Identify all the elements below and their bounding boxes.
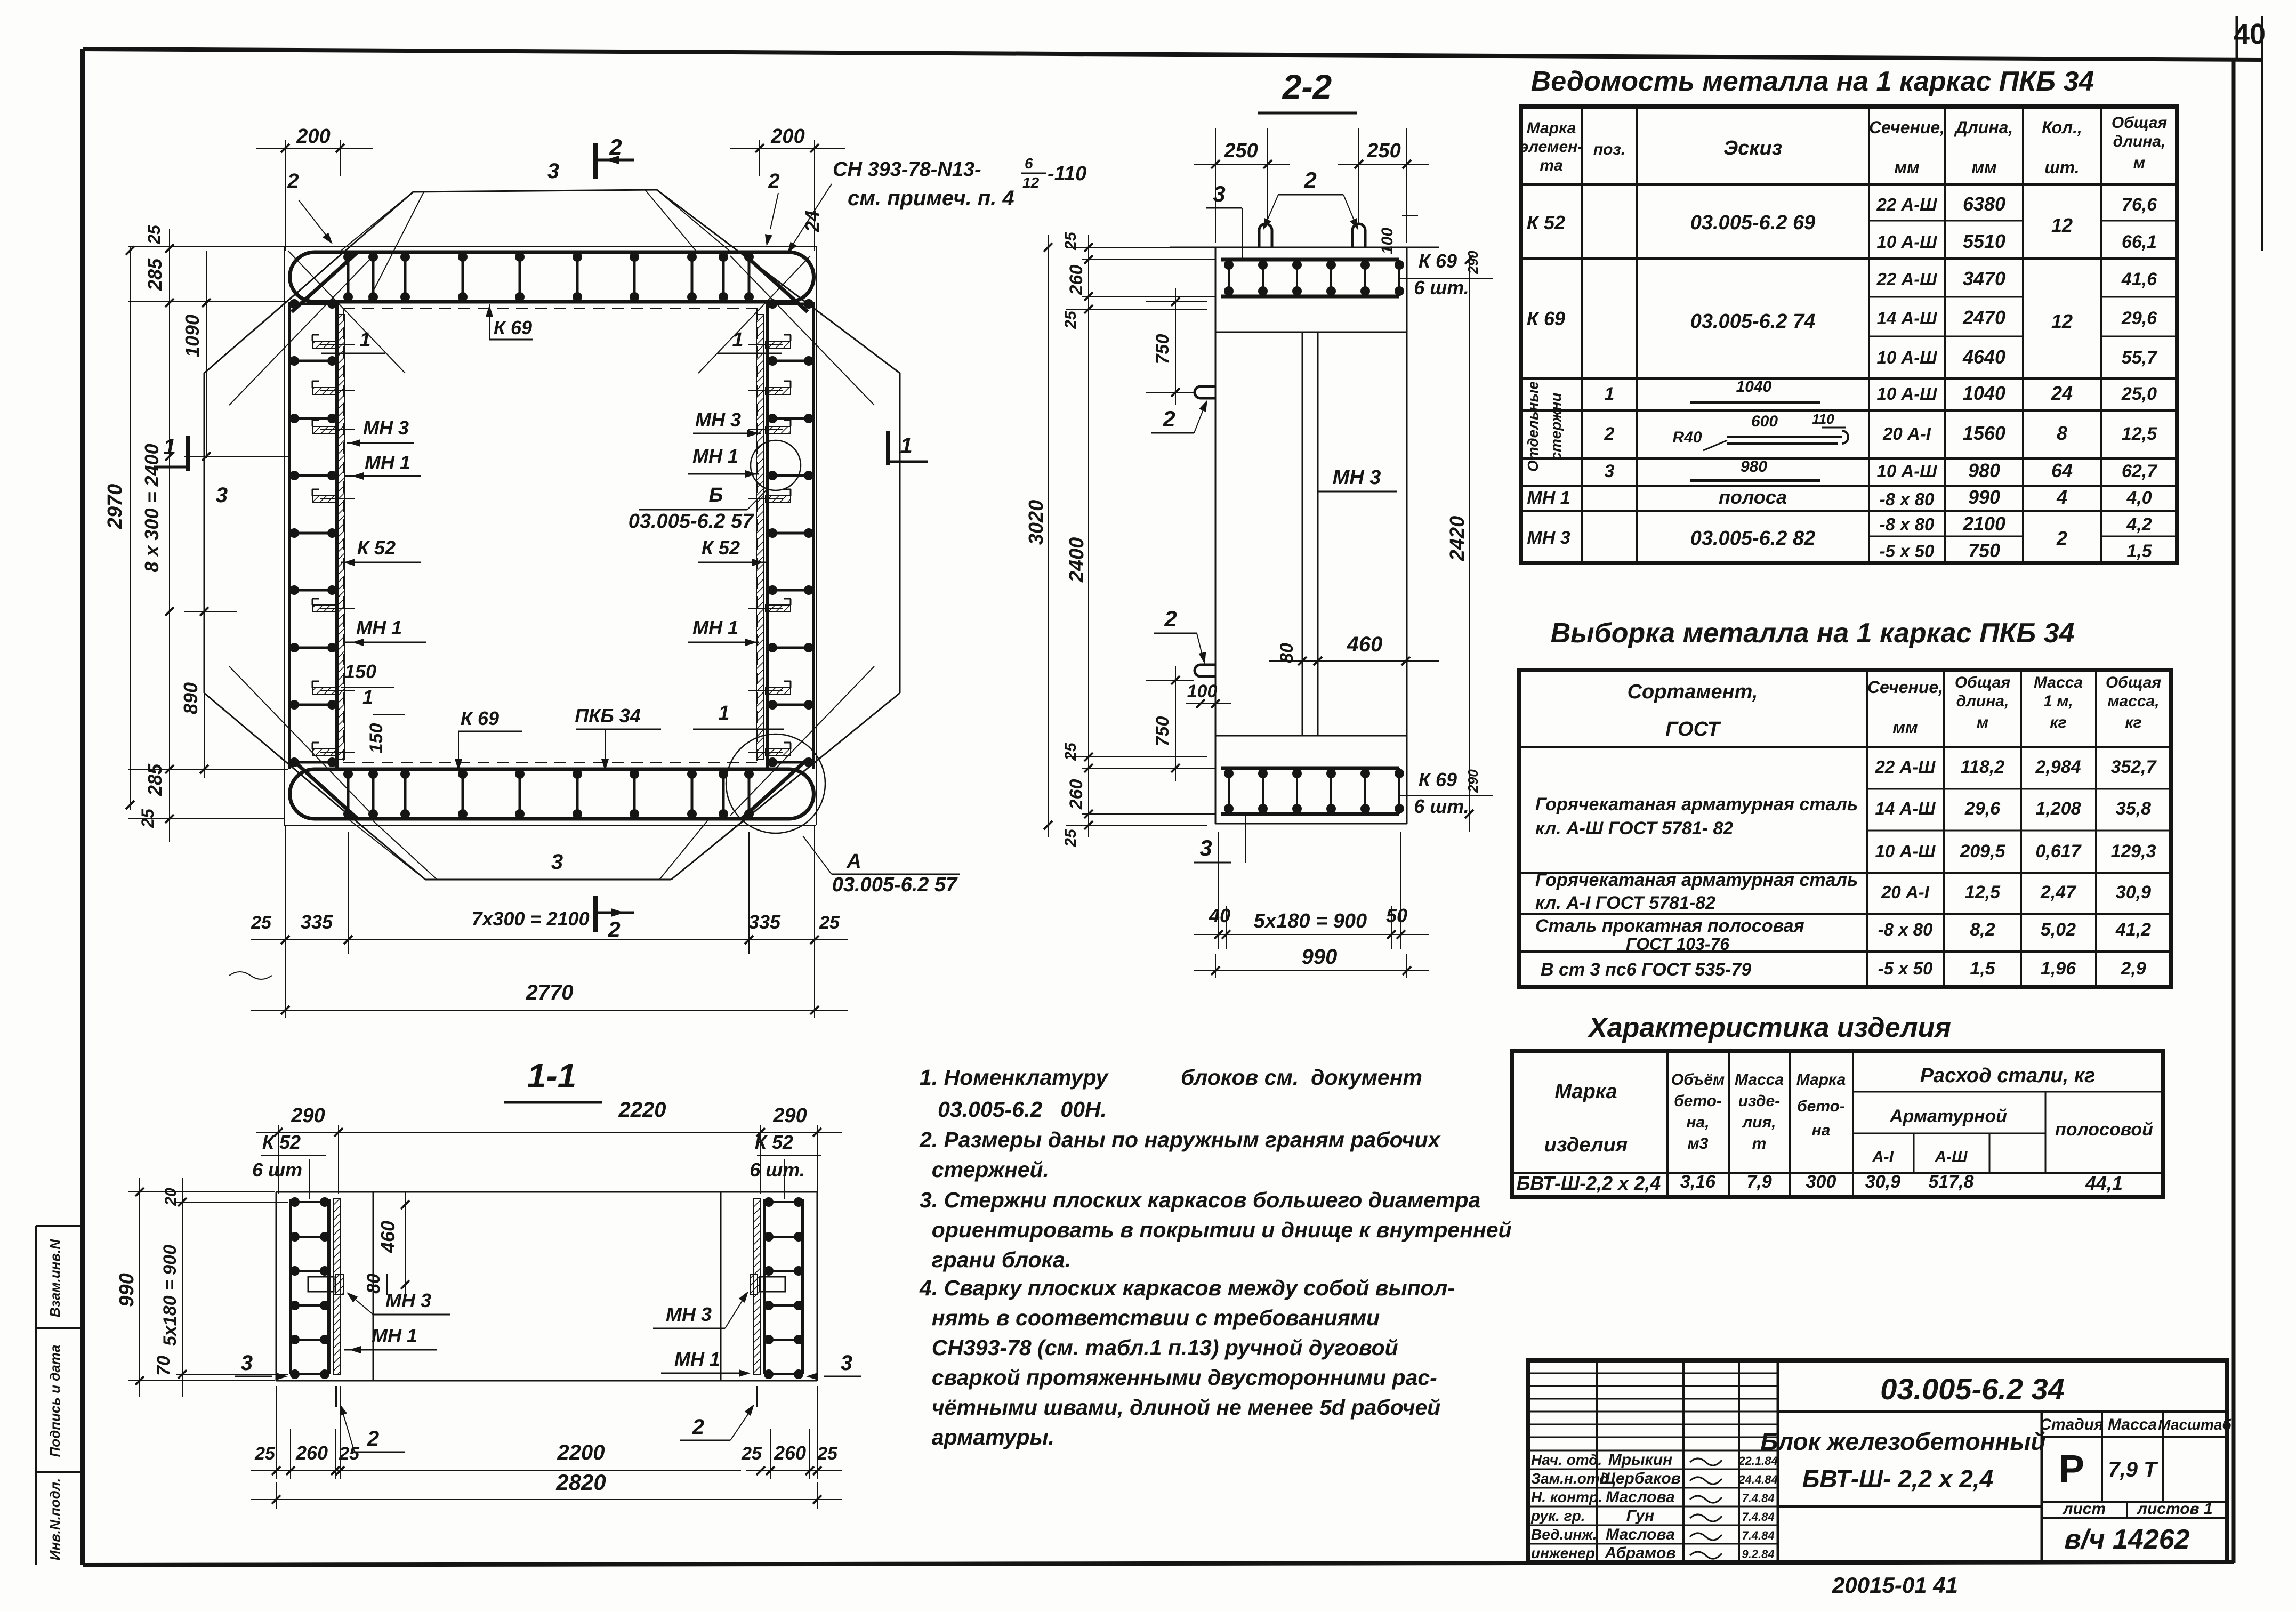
- svg-text:200: 200: [770, 125, 804, 148]
- svg-text:12: 12: [1022, 174, 1040, 191]
- svg-text:3: 3: [216, 483, 228, 507]
- svg-text:25: 25: [819, 913, 840, 933]
- svg-text:22 А-Ш: 22 А-Ш: [1876, 195, 1937, 214]
- svg-text:Стадия: Стадия: [2040, 1416, 2104, 1433]
- svg-text:кг: кг: [2125, 714, 2141, 731]
- drawing frame: [83, 49, 2262, 60]
- dim 460 80 MH3 labels left: [405, 1192, 406, 1295]
- table1 outer: [1521, 107, 2177, 563]
- svg-text:рук. гр.: рук. гр.: [1530, 1508, 1585, 1524]
- right MH3 plate stub: [760, 1277, 785, 1292]
- svg-text:МН 3: МН 3: [1333, 466, 1381, 489]
- svg-text:5,02: 5,02: [2041, 920, 2076, 940]
- svg-text:Зам.н.отд: Зам.н.отд: [1531, 1470, 1609, 1487]
- svg-text:СН 393-78-N13-: СН 393-78-N13-: [833, 158, 981, 181]
- svg-text:МН 3: МН 3: [363, 417, 409, 439]
- stadiya massa masshtab: [2041, 1412, 2043, 1562]
- svg-text:3470: 3470: [1963, 268, 2005, 289]
- svg-text:03.005-6.2 74: 03.005-6.2 74: [1690, 310, 1816, 333]
- svg-text:4. Сварку плоских каркасов меж: 4. Сварку плоских каркасов между собой в…: [919, 1276, 1455, 1300]
- svg-text:30,9: 30,9: [1865, 1172, 1900, 1192]
- svg-text:Характеристика изделия: Характеристика изделия: [1587, 1012, 1951, 1043]
- overall dims 3020 2400 2420: [1048, 235, 1049, 837]
- svg-text:4: 4: [2056, 486, 2067, 508]
- svg-text:10 А-Ш: 10 А-Ш: [1876, 348, 1937, 367]
- svg-text:2: 2: [367, 1427, 379, 1450]
- section flag 1 right: [886, 431, 890, 465]
- svg-text:МН 1: МН 1: [365, 452, 410, 473]
- bottom band rungs and bar dots: [347, 769, 350, 819]
- svg-text:1: 1: [900, 433, 912, 458]
- svg-text:Сталь прокатная полосовая: Сталь прокатная полосовая: [1535, 916, 1804, 936]
- svg-text:150: 150: [344, 660, 376, 682]
- svg-text:20: 20: [162, 1188, 180, 1206]
- svg-text:6 шт.: 6 шт.: [1414, 795, 1469, 817]
- dim 2820: [276, 1482, 277, 1509]
- svg-text:3: 3: [1199, 835, 1212, 860]
- concrete block thin outline: [203, 246, 816, 247]
- svg-text:Масса: Масса: [2034, 674, 2083, 691]
- svg-text:-8 x 80: -8 x 80: [1880, 514, 1935, 534]
- svg-text:260: 260: [1066, 265, 1086, 296]
- svg-text:14 А-Ш: 14 А-Ш: [1876, 308, 1937, 328]
- svg-text:352,7: 352,7: [2110, 757, 2157, 777]
- svg-text:25: 25: [254, 1444, 276, 1464]
- svg-text:1 м,: 1 м,: [2043, 692, 2073, 710]
- left dim column: 25 285 1090 8x300=2400 2970 890 285 25: [128, 246, 284, 247]
- svg-text:Щербаков: Щербаков: [1600, 1470, 1681, 1487]
- svg-text:Марка: Марка: [1527, 119, 1576, 137]
- svg-text:R40: R40: [1672, 429, 1702, 446]
- svg-text:260: 260: [774, 1442, 806, 1464]
- dim bottom row: 25 335 7x300=2100 335 25: [285, 825, 286, 954]
- member outline: [276, 1191, 817, 1193]
- svg-text:ГОСТ: ГОСТ: [1665, 718, 1721, 740]
- svg-text:ПКБ 34: ПКБ 34: [575, 705, 641, 727]
- svg-text:поз.: поз.: [1593, 141, 1625, 158]
- svg-text:Абрамов: Абрамов: [1604, 1544, 1675, 1562]
- svg-text:грани блока.: грани блока.: [920, 1247, 1071, 1272]
- svg-text:8,2: 8,2: [1970, 920, 1995, 940]
- svg-text:МН 1: МН 1: [692, 445, 738, 467]
- svg-text:Отдельные: Отдельные: [1525, 381, 1541, 472]
- svg-text:К 69: К 69: [494, 317, 532, 338]
- svg-text:10 А-Ш: 10 А-Ш: [1876, 461, 1937, 481]
- svg-text:МН 3: МН 3: [385, 1289, 431, 1311]
- svg-text:Арматурной: Арматурной: [1889, 1106, 2007, 1126]
- svg-text:изделия: изделия: [1544, 1134, 1628, 1156]
- svg-text:980: 980: [1968, 460, 2000, 481]
- svg-text:1,5: 1,5: [2126, 541, 2152, 561]
- svg-text:25: 25: [1062, 231, 1079, 251]
- svg-text:К 52: К 52: [1527, 212, 1565, 233]
- svg-text:2: 2: [1604, 424, 1615, 444]
- svg-text:03.005-6.2 57: 03.005-6.2 57: [832, 874, 958, 896]
- right band cage K52 chords: [766, 302, 769, 769]
- svg-text:Марка: Марка: [1796, 1071, 1846, 1089]
- svg-text:25: 25: [1062, 310, 1079, 329]
- svg-text:6 шт.: 6 шт.: [750, 1159, 805, 1181]
- left dims 990 5x180=900 20 70: [128, 1191, 275, 1192]
- svg-text:25: 25: [1062, 742, 1079, 761]
- svg-text:8: 8: [2057, 422, 2067, 444]
- svg-text:250: 250: [1223, 140, 1258, 162]
- svg-text:К 52: К 52: [262, 1131, 301, 1153]
- svg-text:24: 24: [2051, 382, 2073, 404]
- svg-text:Общая: Общая: [1955, 674, 2011, 691]
- svg-text:Общая: Общая: [2112, 114, 2168, 132]
- svg-text:80: 80: [1277, 643, 1297, 663]
- svg-text:Горячекатаная арматурная ста: Горячекатаная арматурная сталь: [1535, 794, 1858, 815]
- svg-text:листов 1: листов 1: [2136, 1500, 2212, 1518]
- svg-text:2: 2: [692, 1415, 704, 1439]
- svg-text:290: 290: [291, 1105, 325, 1127]
- svg-text:29,6: 29,6: [1964, 799, 2001, 819]
- svg-text:2220: 2220: [618, 1098, 666, 1122]
- svg-text:20015-01 41: 20015-01 41: [1832, 1573, 1958, 1598]
- svg-text:03.005-6.2 82: 03.005-6.2 82: [1690, 527, 1816, 550]
- svg-text:2: 2: [607, 917, 620, 942]
- svg-text:инженер: инженер: [1531, 1545, 1595, 1561]
- svg-text:6 шт.: 6 шт.: [1414, 277, 1469, 299]
- svg-text:9.2.84: 9.2.84: [1742, 1547, 1774, 1561]
- dim 2770: [251, 1010, 848, 1011]
- dim 200 top-right: [759, 140, 760, 176]
- svg-text:2: 2: [768, 170, 779, 192]
- svg-text:200: 200: [296, 125, 330, 148]
- svg-text:А: А: [846, 850, 861, 873]
- svg-text:2: 2: [609, 134, 622, 159]
- svg-text:990: 990: [1302, 945, 1338, 969]
- svg-text:03.005-6.2 34: 03.005-6.2 34: [1880, 1372, 2065, 1406]
- svg-text:1-1: 1-1: [527, 1057, 577, 1095]
- svg-text:25: 25: [1062, 828, 1079, 848]
- svg-text:64: 64: [2051, 460, 2073, 481]
- svg-text:10 А-Ш: 10 А-Ш: [1875, 841, 1936, 861]
- svg-text:2100: 2100: [1962, 513, 2005, 535]
- svg-text:кл. А-Ш ГОСТ 5781- 82: кл. А-Ш ГОСТ 5781- 82: [1535, 818, 1733, 839]
- svg-text:2400: 2400: [1066, 537, 1088, 583]
- svg-text:К 52: К 52: [755, 1131, 793, 1153]
- svg-text:20 А-I: 20 А-I: [1882, 424, 1931, 444]
- svg-text:285: 285: [144, 258, 166, 291]
- svg-text:5x180 = 900: 5x180 = 900: [160, 1245, 180, 1346]
- svg-text:3: 3: [1605, 461, 1615, 481]
- svg-text:5510: 5510: [1963, 230, 2005, 252]
- dim 750 upper: [1146, 301, 1207, 302]
- svg-text:2420: 2420: [1446, 516, 1469, 562]
- bottom cage K69 in section: [1221, 767, 1399, 770]
- svg-text:12: 12: [2051, 310, 2073, 332]
- left band cage K52 chords: [288, 302, 291, 769]
- svg-text:Масса: Масса: [1735, 1071, 1784, 1089]
- svg-text:Сечение,: Сечение,: [1867, 678, 1943, 697]
- svg-text:2: 2: [287, 170, 299, 192]
- svg-text:-8 x 80: -8 x 80: [1878, 920, 1933, 939]
- svg-text:12: 12: [2051, 214, 2073, 236]
- svg-text:МН 3: МН 3: [666, 1303, 712, 1325]
- svg-text:в/ч 14262: в/ч 14262: [2064, 1524, 2189, 1555]
- svg-text:517,8: 517,8: [1928, 1172, 1973, 1192]
- svg-text:БВТ-Ш-2,2 x 2,4: БВТ-Ш-2,2 x 2,4: [1517, 1172, 1661, 1194]
- svg-text:Марка: Марка: [1554, 1081, 1617, 1103]
- svg-text:3020: 3020: [1025, 500, 1048, 545]
- svg-text:25,0: 25,0: [2121, 384, 2157, 404]
- svg-text:3: 3: [841, 1351, 852, 1375]
- svg-text:890: 890: [180, 682, 202, 714]
- svg-text:260: 260: [295, 1442, 328, 1464]
- svg-text:3: 3: [551, 850, 563, 874]
- svg-text:К 69: К 69: [1419, 769, 1457, 791]
- svg-text:44,1: 44,1: [2085, 1172, 2123, 1194]
- svg-text:полоса: полоса: [1719, 486, 1787, 508]
- svg-text:та: та: [1540, 157, 1562, 174]
- svg-text:2. Размеры даны по наружным гр: 2. Размеры даны по наружным граням рабоч…: [919, 1127, 1441, 1152]
- svg-text:МН 1: МН 1: [692, 617, 738, 639]
- svg-text:24: 24: [801, 211, 823, 232]
- svg-text:30,9: 30,9: [2116, 882, 2151, 902]
- svg-text:Мрыкин: Мрыкин: [1608, 1451, 1673, 1469]
- svg-text:7.4.84: 7.4.84: [1742, 1510, 1774, 1524]
- svg-text:1: 1: [718, 702, 729, 724]
- svg-text:1040: 1040: [1736, 378, 1772, 396]
- svg-text:-5 x 50: -5 x 50: [1878, 958, 1933, 978]
- svg-text:м: м: [2133, 154, 2145, 172]
- svg-text:шт.: шт.: [2044, 158, 2079, 177]
- svg-text:Длина,: Длина,: [1954, 118, 2013, 137]
- dim 750 lower: [1146, 680, 1194, 681]
- svg-text:Эскиз: Эскиз: [1723, 137, 1782, 159]
- svg-text:мм: мм: [1894, 158, 1920, 177]
- svg-text:6 шт: 6 шт: [252, 1159, 302, 1181]
- svg-text:БВТ-Ш- 2,2 x 2,4: БВТ-Ш- 2,2 x 2,4: [1802, 1465, 1993, 1493]
- svg-text:Нач. отд.: Нач. отд.: [1531, 1452, 1602, 1468]
- dim 40 5x180=900 50: [1218, 832, 1219, 949]
- svg-text:масса,: масса,: [2107, 692, 2159, 710]
- svg-text:300: 300: [1806, 1172, 1836, 1192]
- MH3 bracket plates right: [766, 341, 791, 348]
- svg-text:на: на: [1812, 1122, 1831, 1139]
- section flag 2 bottom: [593, 896, 598, 932]
- svg-text:на,: на,: [1686, 1114, 1709, 1131]
- svg-text:ориентировать в покрытии и дни: ориентировать в покрытии и днище к внутр…: [920, 1218, 1512, 1242]
- right MH1 plate hatched: [753, 1199, 760, 1375]
- section outline: [1170, 247, 1439, 248]
- svg-text:кл. А-I ГОСТ 5781-82: кл. А-I ГОСТ 5781-82: [1535, 893, 1715, 913]
- svg-text:25: 25: [339, 1444, 360, 1464]
- lifting hooks on top: [1259, 224, 1272, 247]
- svg-text:460: 460: [377, 1221, 399, 1253]
- svg-text:Масштаб: Масштаб: [2158, 1416, 2231, 1433]
- svg-text:Общая: Общая: [2106, 674, 2162, 691]
- svg-text:25: 25: [144, 224, 164, 245]
- svg-text:260: 260: [1066, 779, 1086, 810]
- svg-text:22 А-Ш: 22 А-Ш: [1874, 757, 1936, 777]
- svg-text:03.005-6.2 57: 03.005-6.2 57: [629, 510, 754, 533]
- svg-text:стержней.: стержней.: [920, 1157, 1049, 1182]
- svg-text:длина,: длина,: [2113, 133, 2166, 150]
- svg-text:полосовой: полосовой: [2055, 1119, 2153, 1140]
- svg-text:7.4.84: 7.4.84: [1742, 1492, 1774, 1505]
- svg-text:2970: 2970: [104, 484, 126, 530]
- svg-text:-110: -110: [1048, 163, 1086, 185]
- svg-text:25: 25: [741, 1444, 762, 1464]
- svg-text:600: 600: [1751, 413, 1778, 430]
- svg-text:12,5: 12,5: [2122, 424, 2157, 444]
- svg-text:К 69: К 69: [1527, 308, 1565, 329]
- svg-text:2,984: 2,984: [2035, 757, 2081, 777]
- svg-text:изде-: изде-: [1738, 1092, 1780, 1110]
- svg-text:К 52: К 52: [702, 537, 740, 559]
- svg-text:2: 2: [1303, 167, 1316, 192]
- left MH3 plate stub: [308, 1277, 334, 1292]
- svg-text:1090: 1090: [181, 315, 203, 357]
- MH3 plate edge lines: [1302, 332, 1303, 736]
- svg-text:МН 1: МН 1: [356, 617, 402, 639]
- svg-text:арматуры.: арматуры.: [920, 1425, 1054, 1449]
- svg-text:1: 1: [1605, 384, 1615, 404]
- MH3 bracket plates left: [312, 341, 337, 348]
- svg-text:Гун: Гун: [1626, 1507, 1654, 1525]
- dim 250 250 top: [1215, 128, 1216, 243]
- svg-text:25: 25: [138, 808, 157, 828]
- svg-text:Сечение,: Сечение,: [1869, 118, 1945, 137]
- svg-text:335: 335: [748, 911, 781, 933]
- svg-text:длина,: длина,: [1956, 692, 2009, 710]
- svg-text:лия,: лия,: [1742, 1114, 1776, 1131]
- svg-text:1,5: 1,5: [1970, 958, 1995, 979]
- section flag 1 left: [186, 436, 190, 471]
- svg-text:Маслова: Маслова: [1606, 1526, 1675, 1543]
- svg-text:750: 750: [1153, 334, 1173, 365]
- svg-text:22.1.84: 22.1.84: [1738, 1454, 1777, 1468]
- svg-text:209,5: 209,5: [1959, 841, 2005, 861]
- svg-text:290: 290: [772, 1105, 807, 1127]
- svg-text:1,96: 1,96: [2041, 958, 2076, 979]
- left margin stamp column: [35, 1226, 37, 1565]
- svg-text:460: 460: [1347, 633, 1383, 656]
- svg-text:10 А-Ш: 10 А-Ш: [1876, 384, 1937, 404]
- svg-text:Блок железобетонный: Блок железобетонный: [1760, 1428, 2045, 1455]
- svg-text:990: 990: [1968, 486, 2000, 508]
- svg-text:Расход стали, кг: Расход стали, кг: [1920, 1065, 2096, 1087]
- svg-text:62,7: 62,7: [2122, 461, 2158, 481]
- right K52 cage in section: [763, 1199, 766, 1374]
- svg-text:1: 1: [732, 329, 743, 351]
- svg-text:335: 335: [301, 911, 333, 933]
- svg-text:0,617: 0,617: [2035, 841, 2082, 861]
- svg-text:66,1: 66,1: [2122, 232, 2157, 252]
- svg-text:29,6: 29,6: [2121, 308, 2157, 328]
- svg-text:6380: 6380: [1963, 193, 2005, 215]
- bottom dims 25 260 25 2200: [276, 1386, 277, 1479]
- svg-text:100: 100: [1379, 228, 1396, 254]
- svg-text:14 А-Ш: 14 А-Ш: [1875, 799, 1936, 818]
- svg-text:3,16: 3,16: [1680, 1172, 1716, 1192]
- page number 40: [2236, 16, 2238, 60]
- svg-text:3. Стержни плоских каркасов бо: 3. Стержни плоских каркасов большего диа…: [920, 1188, 1480, 1212]
- svg-text:40: 40: [1209, 905, 1230, 926]
- corner diagonal braces: [292, 252, 358, 312]
- svg-text:41,6: 41,6: [2121, 269, 2157, 289]
- svg-text:70: 70: [154, 1356, 174, 1376]
- side hooks bar 2: [1195, 386, 1215, 398]
- svg-text:40: 40: [2234, 18, 2266, 50]
- svg-text:2-2: 2-2: [1282, 68, 1332, 106]
- svg-text:22 А-Ш: 22 А-Ш: [1876, 269, 1937, 289]
- svg-text:6: 6: [1025, 155, 1033, 172]
- svg-text:2470: 2470: [1962, 307, 2005, 328]
- svg-text:03.005-6.2 00Н.: 03.005-6.2 00Н.: [920, 1097, 1107, 1122]
- svg-text:стержни: стержни: [1548, 392, 1564, 460]
- svg-text:-8 x 80: -8 x 80: [1880, 489, 1935, 509]
- svg-text:т: т: [1752, 1135, 1767, 1152]
- svg-text:Б: Б: [709, 484, 723, 506]
- svg-text:100: 100: [1187, 681, 1218, 702]
- svg-text:50: 50: [1386, 905, 1407, 926]
- svg-text:1. Номенклатуру бло: 1. Номенклатуру блоков см. документ: [920, 1065, 1422, 1090]
- svg-text:Подпись и дата: Подпись и дата: [47, 1345, 63, 1457]
- svg-text:Взам.инв.N: Взам.инв.N: [47, 1239, 63, 1317]
- svg-text:Выборка металла на 1 каркас: Выборка металла на 1 каркас ПКБ 34: [1551, 618, 2075, 649]
- svg-text:1: 1: [362, 686, 373, 708]
- svg-text:7x300 = 2100: 7x300 = 2100: [471, 908, 589, 930]
- svg-text:1,208: 1,208: [2035, 799, 2081, 819]
- svg-text:76,6: 76,6: [2122, 195, 2157, 215]
- top band cage K69: chords and end loops: [315, 251, 789, 254]
- svg-text:нять в соответствии с требован: нять в соответствии с требованиями: [920, 1305, 1380, 1330]
- svg-text:3: 3: [547, 159, 559, 183]
- svg-text:Горячекатаная арматурная ста: Горячекатаная арматурная сталь: [1535, 870, 1858, 890]
- svg-text:2: 2: [1162, 406, 1175, 431]
- svg-text:В ст 3 пс6 ГОСТ 535-79: В ст 3 пс6 ГОСТ 535-79: [1541, 960, 1751, 980]
- dim 80 460: [1302, 613, 1303, 674]
- svg-text:129,3: 129,3: [2110, 841, 2156, 861]
- inner dashed concrete face: [343, 308, 757, 309]
- svg-text:мм: мм: [1971, 158, 1997, 177]
- svg-text:Р: Р: [2059, 1448, 2084, 1490]
- MH1 plate strips (hatched) on inner chords: [337, 315, 345, 760]
- svg-text:К 69: К 69: [461, 707, 499, 729]
- svg-text:3: 3: [1213, 181, 1225, 206]
- left dims 25 260 25 (bottom): [1066, 756, 1207, 757]
- svg-text:8 x 300 = 2400: 8 x 300 = 2400: [141, 444, 163, 572]
- svg-text:МН 1: МН 1: [372, 1325, 417, 1347]
- left band rungs and bar dots: [289, 303, 337, 305]
- svg-text:Инв.N.подл.: Инв.N.подл.: [47, 1478, 63, 1561]
- svg-text:мм: мм: [1892, 718, 1918, 737]
- svg-text:1040: 1040: [1963, 382, 2005, 404]
- svg-text:МН 1: МН 1: [674, 1348, 720, 1370]
- svg-text:2200: 2200: [557, 1441, 605, 1464]
- bottom band cage K69: [315, 768, 789, 771]
- svg-text:Н. контр.: Н. контр.: [1531, 1489, 1602, 1505]
- svg-text:2770: 2770: [526, 981, 574, 1004]
- svg-text:Сортамент,: Сортамент,: [1628, 681, 1758, 703]
- svg-text:750: 750: [1153, 716, 1173, 747]
- dim 200 top-left: [285, 140, 286, 251]
- detail circle Б: [751, 440, 801, 490]
- svg-text:25: 25: [251, 913, 272, 933]
- svg-text:03.005-6.2 69: 03.005-6.2 69: [1690, 212, 1816, 234]
- svg-text:35,8: 35,8: [2116, 799, 2151, 819]
- svg-text:12,5: 12,5: [1965, 882, 2001, 902]
- svg-text:80: 80: [364, 1274, 384, 1294]
- svg-text:1: 1: [359, 329, 370, 351]
- svg-text:см. примеч. п. 4: см. примеч. п. 4: [848, 187, 1014, 210]
- svg-text:Маслова: Маслова: [1606, 1488, 1675, 1506]
- svg-text:10 А-Ш: 10 А-Ш: [1876, 232, 1937, 252]
